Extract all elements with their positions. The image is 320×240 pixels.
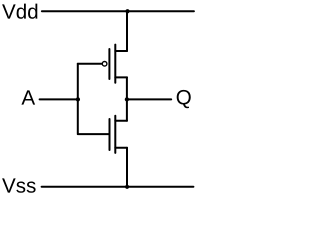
PMOS drain contact (115, 76, 127, 78)
node A label (21, 90, 35, 104)
junction dot output node (125, 97, 129, 101)
PMOS source contact (115, 50, 127, 52)
NMOS drain contact (115, 120, 127, 122)
wire M1 drain down (126, 77, 128, 99)
transistor Q1 PMOS (78, 45, 127, 83)
wire Vdd rail (42, 10, 194, 12)
junction dot input node (76, 97, 80, 101)
junction dot on Vdd rail (125, 9, 129, 13)
NMOS channel bar (114, 116, 116, 153)
junction dot on Vss rail (125, 185, 129, 189)
PMOS gate bubble (102, 62, 107, 67)
net Vdd label (2, 4, 37, 19)
NMOS source contact (115, 147, 127, 149)
transistor Q2 NMOS (78, 116, 127, 153)
PMOS channel bar (114, 45, 116, 83)
PMOS gate lead (78, 63, 102, 65)
wire M2 drain up (126, 99, 128, 120)
wire output Q (127, 98, 171, 100)
wire gate vertical (77, 64, 79, 134)
wire M1 source to Vdd (126, 11, 128, 51)
wire Vss rail (42, 186, 194, 188)
net Vss label (2, 178, 36, 192)
node Q label (177, 90, 191, 108)
NMOS gate lead (78, 133, 109, 135)
wire input A (40, 98, 78, 100)
NMOS gate bar (109, 119, 111, 150)
wire M2 source to Vss (126, 148, 128, 187)
PMOS gate bar (108, 49, 110, 79)
